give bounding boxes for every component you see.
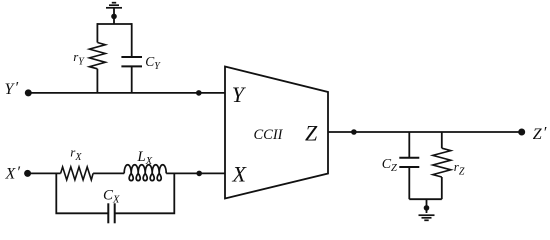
- wire: stub from bottom rail to ground: [426, 199, 428, 213]
- inductor LX: [124, 165, 166, 181]
- capacitor CY: [121, 23, 142, 93]
- junction dot on X wire: [196, 171, 202, 177]
- svg-text:rZ: rZ: [454, 159, 465, 178]
- junction dot on ground stub: [111, 14, 117, 20]
- wire: LX to CCII X input: [166, 172, 225, 174]
- wire: top rail joining rY and CY branch tops: [97, 23, 131, 25]
- svg-text:Y′: Y′: [5, 80, 19, 99]
- svg-text:CZ: CZ: [382, 157, 397, 174]
- svg-text:rX: rX: [70, 145, 82, 163]
- wire: rX to LX: [93, 172, 124, 174]
- node Z' terminal dot: [518, 129, 525, 136]
- node Y' terminal dot: [25, 89, 32, 96]
- svg-text:CCII: CCII: [254, 127, 284, 143]
- svg-text:Y: Y: [232, 82, 247, 107]
- wire: X' to rX: [28, 172, 61, 174]
- resistor rZ: [433, 132, 451, 199]
- wire: Y' to CCII Y input: [28, 92, 225, 94]
- svg-text:X′: X′: [5, 164, 21, 183]
- svg-text:Z: Z: [305, 121, 318, 146]
- wire: CX branch right side: [115, 173, 175, 214]
- resistor rY: [89, 23, 105, 93]
- wire: ground stub down to top rail: [113, 8, 115, 24]
- wire: CX branch left side: [56, 173, 108, 214]
- junction dot on Y wire: [196, 90, 202, 96]
- capacitor CZ: [399, 132, 419, 199]
- ground (bottom, below CZ/rZ network): [419, 215, 435, 220]
- wire: bottom rail joining CZ and rZ: [409, 198, 442, 200]
- svg-text:X: X: [232, 162, 248, 187]
- node X' terminal dot: [24, 170, 31, 177]
- svg-text:LX: LX: [136, 149, 152, 167]
- svg-text:CY: CY: [145, 54, 161, 72]
- ground (top, above rY/CY network): [106, 3, 122, 8]
- svg-text:Z′: Z′: [533, 125, 547, 144]
- junction dot on Z wire: [351, 129, 357, 135]
- svg-text:CX: CX: [103, 187, 120, 205]
- resistor rX: [61, 167, 94, 180]
- capacitor CX: [108, 203, 114, 223]
- op-amp / current conveyor CCII block: [225, 67, 328, 199]
- svg-text:rY: rY: [73, 49, 85, 67]
- junction dot on ground stub: [424, 205, 430, 211]
- wire: CCII Z output to Z': [328, 131, 522, 133]
